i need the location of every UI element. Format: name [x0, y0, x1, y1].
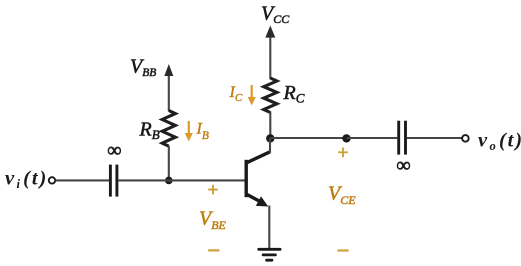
node collector junction dot	[266, 134, 274, 142]
node VCC supply arrow	[265, 26, 275, 80]
svg-text:IC: IC	[229, 84, 243, 104]
resistor RB	[162, 111, 175, 147]
wire capacitor C1 to base node to transistor base	[118, 179, 244, 181]
current arrow IC	[248, 85, 256, 106]
capacitor C1 plates	[110, 165, 117, 197]
node VBB supply arrow	[164, 64, 173, 111]
svg-text:IB: IB	[196, 121, 209, 143]
transistor Q1 collector lead	[247, 152, 271, 163]
capacitor C2 plates	[399, 121, 406, 155]
svg-text:VCC: VCC	[261, 3, 290, 27]
svg-text:∞: ∞	[107, 139, 121, 161]
node output junction dot	[342, 134, 350, 142]
transistor Q1 emitter lead with arrow	[247, 194, 269, 206]
svg-text:RC: RC	[283, 82, 305, 106]
wire vi terminal to capacitor C1	[56, 179, 110, 181]
wire emitter to ground	[268, 206, 270, 249]
svg-text:VCE: VCE	[328, 183, 356, 208]
wire output junction to capacitor C2	[347, 137, 398, 139]
label minus VBE	[208, 249, 219, 251]
svg-text:VBE: VBE	[199, 208, 227, 233]
label plus VCE	[338, 148, 348, 158]
wire RC bottom to collector node	[269, 112, 271, 139]
svg-text:vo(t): vo(t)	[478, 130, 521, 154]
svg-text:∞: ∞	[396, 154, 410, 176]
label plus VBE	[208, 185, 218, 195]
resistor RC	[264, 78, 277, 112]
wire RB bottom to base node	[168, 146, 170, 180]
current arrow IB	[185, 121, 193, 142]
wire capacitor C2 to output terminal	[407, 137, 462, 139]
wire collector lead to node	[269, 138, 271, 153]
wire collector node to output junction	[270, 137, 346, 139]
svg-text:VBB: VBB	[130, 56, 156, 80]
svg-text:RB: RB	[139, 119, 160, 143]
label minus VCE	[337, 249, 348, 251]
ground	[257, 248, 281, 262]
transistor Q1 base bar	[244, 160, 247, 197]
node base junction dot	[165, 177, 173, 185]
terminal vi circle	[49, 177, 55, 183]
svg-text:vi(t): vi(t)	[5, 168, 48, 192]
terminal vo circle	[462, 135, 469, 142]
